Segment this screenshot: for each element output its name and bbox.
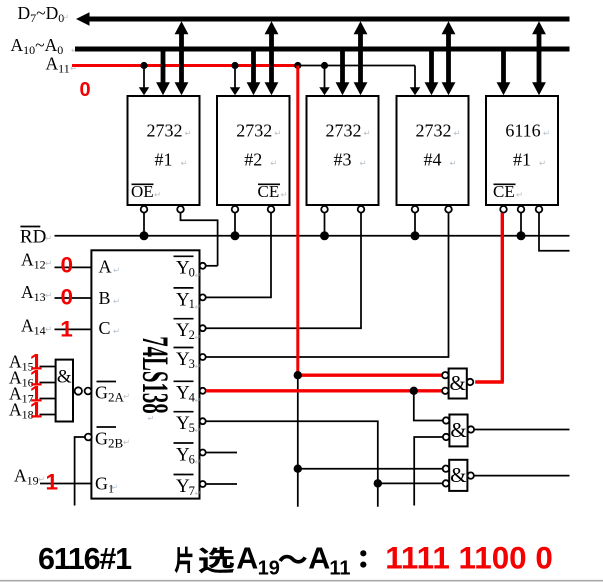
svg-text:0: 0 xyxy=(80,79,91,101)
U6 pin label Y1 (active low) xyxy=(174,287,194,289)
svg-text:↵: ↵ xyxy=(360,158,367,168)
wire A11 tap arrow into U2 xyxy=(234,66,236,88)
wire U1 OE to RD xyxy=(143,213,145,236)
nand U10 input bubbles xyxy=(443,466,449,472)
separator line at bottom edge xyxy=(0,580,603,582)
wire A11 tap arrow into U3 xyxy=(324,66,326,88)
junction Y5 to U10 xyxy=(374,479,382,487)
svg-text:↵: ↵ xyxy=(38,474,45,484)
address bus arrow into U1 xyxy=(161,49,166,83)
svg-text:74LS138: 74LS138 xyxy=(134,336,175,414)
svg-text:↵: ↵ xyxy=(45,233,52,243)
svg-text:CE: CE xyxy=(258,182,280,201)
svg-text:↵: ↵ xyxy=(111,482,118,492)
svg-text:↵: ↵ xyxy=(154,190,161,200)
bus A10~A0 wire xyxy=(75,47,570,52)
junction A11/U1 xyxy=(140,62,147,69)
svg-text:&: & xyxy=(450,463,466,487)
svg-text:1: 1 xyxy=(46,470,59,495)
svg-text:A13: A13 xyxy=(21,282,46,304)
junction A11/U3 xyxy=(321,62,328,69)
U3 bottom pin bubbles xyxy=(321,206,328,213)
svg-text:↵: ↵ xyxy=(543,128,550,138)
U6 output bubble Y7 xyxy=(200,481,206,487)
U6 output bubble Y3 xyxy=(200,354,206,360)
svg-text:↵: ↵ xyxy=(270,158,277,168)
nand U8 (6116 select) box and & xyxy=(449,369,467,399)
memory chip U4 2732 #4 box xyxy=(397,96,469,205)
svg-text:6116#1: 6116#1 xyxy=(38,542,132,576)
wire U9 output stub xyxy=(474,429,570,431)
U6 output bubble Y4 xyxy=(200,388,206,394)
svg-text:↵: ↵ xyxy=(45,258,52,268)
svg-text:↵: ↵ xyxy=(450,158,457,168)
svg-text:↵: ↵ xyxy=(454,128,461,138)
memory chip U5 6116 #1 box xyxy=(486,96,558,205)
svg-text:A: A xyxy=(236,542,258,576)
U1 bottom pin bubbles xyxy=(141,206,148,213)
wire A12 to pin A xyxy=(55,266,92,268)
svg-text:#4: #4 xyxy=(424,150,442,170)
svg-text:↵: ↵ xyxy=(45,324,52,334)
svg-text:D7~D0: D7~D0 xyxy=(18,3,65,25)
wire A11 red to nand U8 xyxy=(296,374,442,377)
svg-text:↵: ↵ xyxy=(45,290,52,300)
U6 input bubble G2A xyxy=(85,388,92,395)
wire U4 CE down to Y3 xyxy=(206,213,449,357)
label RD (active low read) xyxy=(20,226,40,228)
svg-text:#2: #2 xyxy=(244,150,262,170)
svg-text:↵: ↵ xyxy=(62,12,69,22)
svg-text:2732: 2732 xyxy=(416,121,452,141)
svg-text:1111 1100 0: 1111 1100 0 xyxy=(385,540,553,575)
junction A11 corner to red vertical xyxy=(294,62,301,69)
svg-text:2732: 2732 xyxy=(326,121,362,141)
svg-text:A: A xyxy=(99,257,112,277)
svg-text:&: & xyxy=(450,371,466,395)
svg-text:A12: A12 xyxy=(21,249,46,271)
wire Y4 red to nand U8 xyxy=(206,389,443,392)
U6 pin label Y6 (active low) xyxy=(174,442,194,444)
svg-text:2732: 2732 xyxy=(236,121,272,141)
svg-text:↵: ↵ xyxy=(123,391,130,401)
svg-text:↵: ↵ xyxy=(113,265,120,275)
wire U3 CE down to Y2 xyxy=(206,213,361,328)
wire U9 lower input from below xyxy=(414,437,443,506)
U6 pin label Y2 (active low) xyxy=(174,318,194,320)
wire A14 to pin C xyxy=(55,328,92,330)
svg-text:↵: ↵ xyxy=(516,190,523,200)
nand gate U7 (A15-A18) box xyxy=(56,360,73,422)
svg-text:↵: ↵ xyxy=(113,326,120,336)
U2 pin label CE (active low) xyxy=(258,183,280,185)
data bus double arrow U1 xyxy=(179,34,184,83)
bus D7~D0 wire with left arrowhead xyxy=(88,17,570,22)
svg-text:↵: ↵ xyxy=(195,362,202,371)
memory chip U1 2732 #1 box xyxy=(128,96,200,205)
svg-text:↵: ↵ xyxy=(181,158,188,168)
wire U5 CE red vertical xyxy=(501,213,504,382)
junction U2-RD xyxy=(231,231,240,240)
svg-text:6116: 6116 xyxy=(505,121,540,141)
svg-text:A: A xyxy=(308,542,330,576)
U6 output bubble Y6 xyxy=(200,450,206,456)
U6 pin label Y5 (active low) xyxy=(174,411,194,413)
wire Y4 tap down to U9 input xyxy=(414,391,443,421)
wire U2 CE down to Y1 xyxy=(206,213,271,298)
nand U10 box and & xyxy=(449,460,467,491)
U6 output bubble Y1 xyxy=(200,294,206,300)
wire Y5 from decoder xyxy=(206,421,378,507)
junction U5-RD xyxy=(517,231,526,240)
U1 pin label OE (active low) xyxy=(132,183,154,185)
memory chip U3 2732 #3 box xyxy=(307,96,379,205)
wire U8 output red to U5 CE xyxy=(475,380,504,383)
address bus arrow into U2 xyxy=(251,49,256,83)
U6 pin label Y0 (active low) xyxy=(174,255,194,257)
wire A11 to U10 input xyxy=(298,468,443,470)
nand U9 box and & xyxy=(449,415,467,447)
nand U9 input bubbles xyxy=(443,417,449,423)
svg-text:A19: A19 xyxy=(14,466,39,488)
svg-text:↵: ↵ xyxy=(148,414,155,423)
wire U2 OE to RD xyxy=(234,213,236,236)
svg-text:#1: #1 xyxy=(513,150,531,170)
wire U4 OE to RD xyxy=(414,213,416,236)
svg-text:↵: ↵ xyxy=(185,128,192,138)
wire U1 CE to Y0 xyxy=(181,213,218,266)
wire A11 red vertical xyxy=(296,66,299,376)
wire U5 OE to RD xyxy=(520,213,522,236)
wire RD horizontal xyxy=(55,235,570,237)
svg-text:↵: ↵ xyxy=(195,271,202,280)
svg-text:&: & xyxy=(57,367,72,388)
junction A11 to U10 xyxy=(294,465,302,473)
junction Y4 tap xyxy=(410,387,418,395)
svg-text:1: 1 xyxy=(60,317,73,342)
decoder U6 74LS138 box xyxy=(91,250,199,498)
wire Y5 to U10 input xyxy=(378,482,443,484)
svg-text:↵: ↵ xyxy=(195,302,202,311)
svg-text:2732: 2732 xyxy=(147,121,183,141)
wire A19 to G1 xyxy=(40,483,91,485)
U7 output bubble xyxy=(75,387,82,394)
nand U8 (6116 select) input bubbles xyxy=(442,372,448,378)
wire A11 tap arrow into U4 xyxy=(414,66,416,88)
wire G2B from below xyxy=(75,437,86,506)
data bus double arrow U5 xyxy=(537,34,542,83)
U6 pin label Y3 (active low) xyxy=(174,347,194,349)
U6 pin label Y4 (active low) xyxy=(174,380,194,382)
wire A18 to U7 xyxy=(40,414,56,416)
U2 bottom pin bubbles xyxy=(232,206,239,213)
svg-text:↵: ↵ xyxy=(195,489,202,498)
nand U10 output bubble xyxy=(468,472,474,478)
address bus arrow into U5 xyxy=(501,49,506,83)
wire A11 black vertical below xyxy=(297,375,299,507)
wire Y7 stub xyxy=(206,483,237,485)
svg-text:↵: ↵ xyxy=(195,396,202,405)
svg-text:↵: ↵ xyxy=(123,437,130,447)
U4 bottom pin bubbles xyxy=(412,206,419,213)
U6 pin label Y7 (active low) xyxy=(174,474,194,476)
wire A11 tap arrow into U1 xyxy=(143,66,145,88)
junction U1-RD xyxy=(140,231,149,240)
address bus arrow into U4 xyxy=(429,49,434,83)
wire U5 WE stub xyxy=(539,213,570,251)
caption text 选 (select) xyxy=(199,547,234,574)
svg-text:↵: ↵ xyxy=(274,128,281,138)
svg-text:↵: ↵ xyxy=(364,128,371,138)
junction A11/U2 xyxy=(231,62,238,69)
svg-text:#3: #3 xyxy=(334,150,352,170)
junction U4-RD xyxy=(411,231,420,240)
wire A13 to pin B xyxy=(55,297,92,299)
wire Y0 to corner xyxy=(206,265,218,267)
wire A17 to U7 xyxy=(40,398,56,400)
svg-text:↵: ↵ xyxy=(195,458,202,467)
nand U8 (6116 select) output bubble xyxy=(467,379,473,385)
U6 pin label G2A (active low) xyxy=(97,381,117,383)
svg-text:A11: A11 xyxy=(46,54,70,76)
wire U3 OE to RD xyxy=(324,213,326,236)
U6 output bubble Y5 xyxy=(200,418,206,424)
svg-text:↵: ↵ xyxy=(195,426,202,435)
svg-text:↵: ↵ xyxy=(113,296,120,306)
wire Y6 stub xyxy=(206,452,237,454)
svg-text:RD: RD xyxy=(20,226,46,247)
wire A11 (red) horizontal xyxy=(72,64,299,67)
junction A11 red corner xyxy=(294,371,302,379)
svg-text:19: 19 xyxy=(258,558,280,580)
wire A15 to U7 xyxy=(40,366,56,368)
svg-text:CE: CE xyxy=(493,182,515,201)
svg-text:C: C xyxy=(99,318,111,338)
junction U3-RD xyxy=(320,231,329,240)
svg-text:↵: ↵ xyxy=(281,190,288,200)
U5 pin label CE (active low) xyxy=(494,183,516,185)
svg-text:OE: OE xyxy=(131,182,154,201)
memory chip U2 2732 #2 box xyxy=(217,96,290,205)
wire A16 to U7 xyxy=(40,382,56,384)
U6 output bubble Y0 xyxy=(200,263,206,269)
svg-text:0: 0 xyxy=(61,252,74,277)
svg-text:#1: #1 xyxy=(155,150,173,170)
svg-text:A14: A14 xyxy=(21,315,46,337)
svg-text:1: 1 xyxy=(30,398,43,423)
svg-text:↵: ↵ xyxy=(539,158,546,168)
data bus double arrow U3 xyxy=(358,34,363,83)
U6 input bubble G2B xyxy=(85,434,92,441)
data bus double arrow U2 xyxy=(269,34,274,83)
data bus double arrow U4 xyxy=(446,34,451,83)
caption text 片 (chip) xyxy=(175,547,193,574)
U5 bottom pin bubbles xyxy=(500,206,507,213)
wire U10 output stub xyxy=(474,475,570,477)
nand U9 output bubble xyxy=(468,426,474,432)
wire A11 black continuation to chip4 xyxy=(298,65,415,67)
svg-text:11: 11 xyxy=(329,558,350,580)
svg-text:0: 0 xyxy=(61,285,74,310)
address bus arrow into U3 xyxy=(340,49,345,83)
svg-text:&: & xyxy=(450,418,466,442)
svg-text:B: B xyxy=(99,288,111,308)
svg-text:↵: ↵ xyxy=(195,333,202,342)
U6 output bubble Y2 xyxy=(200,325,206,331)
U6 pin label G2B (active low) xyxy=(97,426,117,428)
